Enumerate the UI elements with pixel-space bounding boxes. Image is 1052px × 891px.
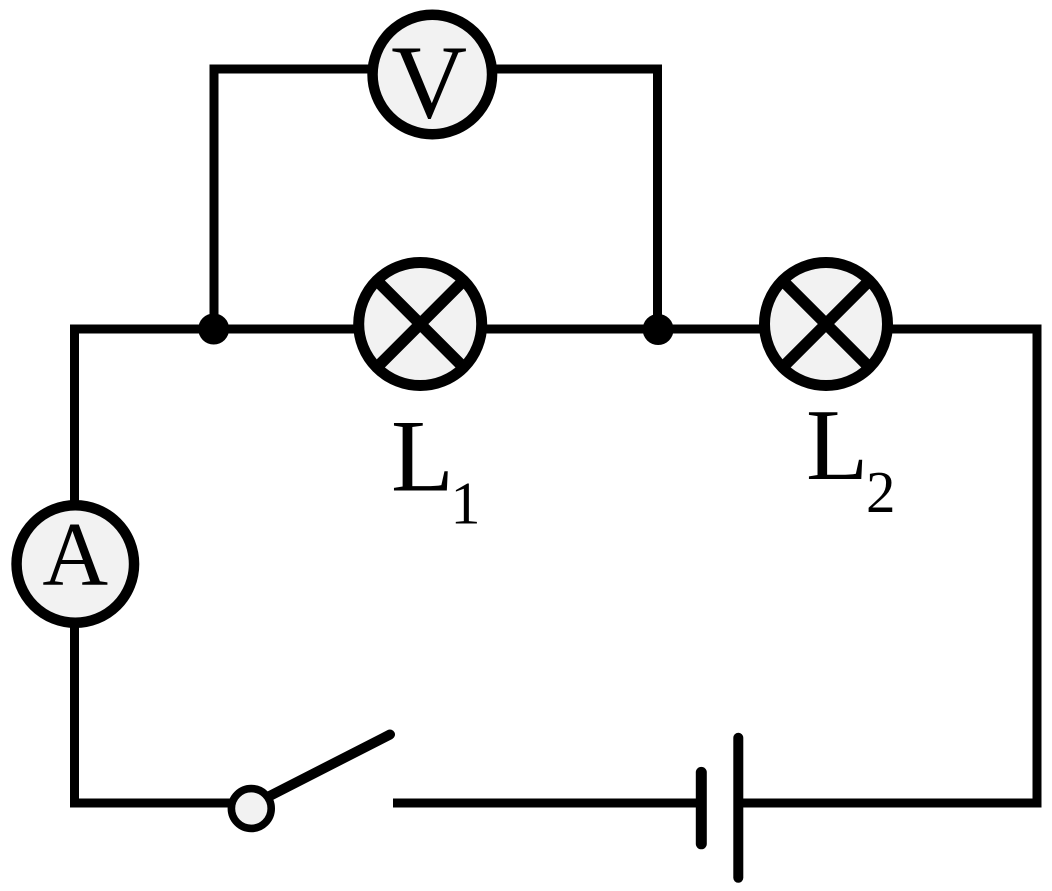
switch S contact circle (231, 789, 271, 829)
svg-text:2: 2 (866, 459, 896, 525)
lamp L2 cross (783, 281, 870, 368)
lamp L2 circle (765, 263, 888, 386)
battery positive plate (long) (733, 738, 743, 878)
node A junction dot (198, 314, 229, 345)
lamp L1 circle (359, 263, 482, 386)
wire: switch to battery segment (393, 799, 701, 808)
svg-text:L: L (806, 389, 868, 502)
wire: voltmeter branch (node A up, across top, down to node B) (214, 69, 658, 329)
wire: main loop left vertical, top horizontal, right vertical (75, 329, 1038, 803)
switch S lever (252, 735, 390, 806)
lamp L1 cross (377, 281, 464, 368)
node B junction dot (643, 314, 674, 345)
ammeter A circle (17, 505, 135, 623)
battery negative plate (short) (696, 772, 707, 843)
svg-text:1: 1 (451, 470, 481, 536)
svg-text:L: L (391, 400, 454, 514)
svg-text:V: V (391, 23, 467, 140)
voltmeter V circle (373, 15, 493, 135)
svg-text:A: A (42, 504, 108, 605)
